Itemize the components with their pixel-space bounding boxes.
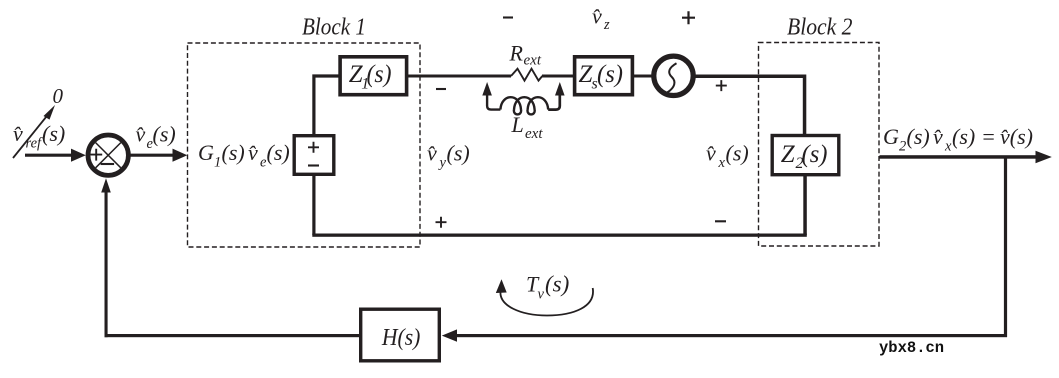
- wire: AC source to Block 2 and down to Z2: [693, 75, 806, 135]
- impedance Z1 box: [340, 57, 407, 95]
- svg-text:(s): (s): [802, 141, 828, 168]
- wire: feedback bottom into H(s): [442, 329, 1007, 341]
- svg-text:(s): (s): [952, 124, 975, 149]
- svg-text:z: z: [603, 17, 610, 33]
- label G1(s) ve(s): [198, 140, 290, 171]
- wire: source bottom to rail: [312, 175, 315, 235]
- svg-text:R: R: [509, 41, 524, 66]
- label v_ref(s): [13, 121, 65, 152]
- label minus at vy top node: [436, 88, 446, 90]
- wire: bottom rail: [312, 234, 807, 237]
- label plus above (vz polarity): [682, 11, 695, 24]
- svg-text:ybx8.cn: ybx8.cn: [879, 339, 944, 357]
- svg-text:2: 2: [899, 139, 906, 155]
- svg-text:(s): (s): [545, 272, 569, 297]
- AC source vz: [654, 56, 693, 95]
- svg-text:(s): (s): [222, 140, 245, 165]
- Block 2 dashed boundary: [759, 43, 880, 247]
- svg-text:v̂: v̂: [248, 140, 258, 165]
- wire: H(s) to summing junction: [105, 334, 360, 337]
- svg-text:0: 0: [53, 84, 64, 108]
- svg-text:v̂: v̂: [933, 124, 943, 149]
- svg-text:v̂: v̂: [13, 121, 23, 146]
- summing junction: [88, 135, 128, 175]
- label minus at rail right: [715, 220, 726, 222]
- wire: Z1 output to resistor Rext: [408, 75, 511, 78]
- wire: error signal arrow to Block 1: [131, 149, 188, 162]
- svg-text:=: =: [981, 124, 996, 149]
- label Lext: [511, 112, 544, 142]
- zero-reference slash arrow: [13, 105, 55, 158]
- label vy(s): [427, 141, 470, 172]
- svg-text:G: G: [883, 124, 899, 149]
- svg-text:x: x: [944, 139, 952, 155]
- label plus at rail left: [436, 217, 447, 228]
- impedance Z2 box: [772, 136, 839, 175]
- svg-text:G: G: [198, 140, 214, 165]
- svg-text:1: 1: [214, 155, 221, 171]
- svg-text:ext: ext: [525, 126, 543, 142]
- label vx(s): [706, 141, 749, 172]
- loop gain arrow Tv(s): [496, 279, 593, 315]
- svg-text:(s): (s): [597, 61, 623, 88]
- svg-text:Block 1: Block 1: [302, 15, 366, 41]
- svg-text:(s): (s): [42, 121, 65, 146]
- resistor Rext: [511, 69, 542, 81]
- inductor Lext (parallel branch with up arrows): [482, 82, 564, 114]
- svg-text:v̂(s): v̂(s): [1000, 124, 1033, 149]
- label vz: [592, 4, 610, 34]
- svg-text:(s): (s): [153, 122, 176, 147]
- wire: Zs to AC source: [634, 75, 654, 78]
- label Tv(s): [526, 272, 569, 303]
- svg-text:Z: Z: [781, 141, 796, 168]
- svg-text:ext: ext: [524, 53, 542, 69]
- svg-text:v̂: v̂: [427, 141, 437, 166]
- label v_e(s): [136, 122, 176, 153]
- svg-text:v̂: v̂: [136, 122, 146, 147]
- wire: feedback right vertical: [1004, 157, 1007, 337]
- svg-text:v̂: v̂: [592, 4, 602, 29]
- controlled source G1(s)ve(s) (box with + -): [294, 136, 334, 175]
- impedance Zs box: [575, 57, 633, 95]
- svg-text:Block 2: Block 2: [787, 15, 853, 41]
- wire: source top to Z1 input: [312, 74, 340, 134]
- svg-text:(s): (s): [726, 141, 749, 166]
- arrowhead into summing junction: [101, 178, 111, 192]
- wire: resistor to Zs: [542, 75, 573, 78]
- block H(s): [361, 309, 440, 361]
- svg-text:(s): (s): [367, 61, 392, 88]
- label G2(s) vx(s) = v(s): [883, 124, 1033, 155]
- svg-text:(s): (s): [447, 141, 470, 166]
- wire: reference input arrow into summing junction: [25, 149, 86, 162]
- label minus above (vz polarity): [503, 16, 513, 18]
- svg-text:v̂: v̂: [706, 141, 716, 166]
- svg-text:x: x: [718, 155, 726, 171]
- svg-text:L: L: [511, 112, 524, 137]
- wire: Z2 bottom to rail: [803, 174, 807, 235]
- svg-text:(s): (s): [907, 124, 930, 149]
- wire: output arrow: [880, 151, 1052, 163]
- svg-text:(s): (s): [267, 140, 290, 165]
- Block 1 dashed boundary: [188, 43, 421, 247]
- label plus at vx top node: [716, 80, 727, 91]
- svg-text:v: v: [538, 287, 545, 303]
- svg-text:y: y: [438, 155, 447, 171]
- svg-text:H(s): H(s): [381, 325, 420, 351]
- label Rext: [509, 41, 542, 69]
